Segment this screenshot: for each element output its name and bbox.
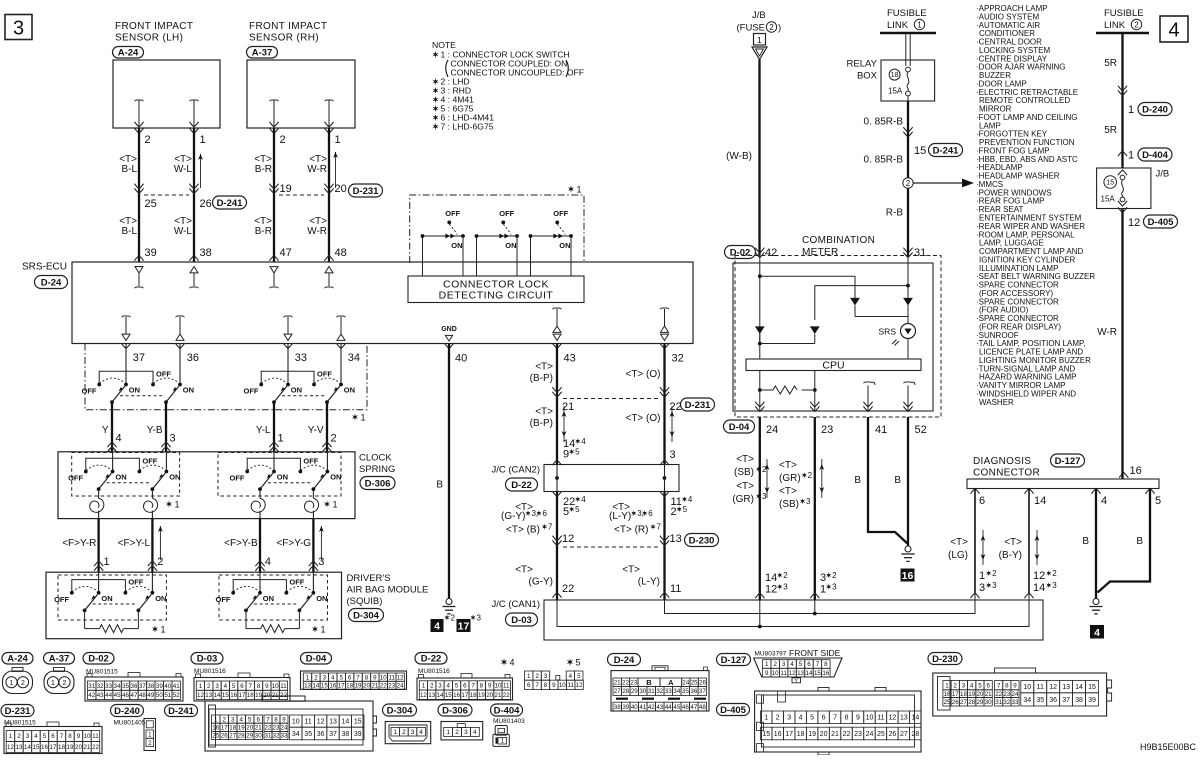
svg-text:B: B	[1082, 536, 1089, 547]
front impact sensor LH box	[113, 60, 220, 128]
svg-text:<T> (O): <T> (O)	[625, 369, 660, 380]
svg-text:22: 22	[92, 744, 99, 751]
svg-text:12: 12	[889, 715, 897, 722]
diode D1	[850, 298, 859, 305]
svg-text:DRIVER'S: DRIVER'S	[347, 573, 391, 584]
squib resistor element	[245, 610, 247, 628]
svg-text:2: 2	[906, 179, 911, 188]
svg-text:<T>: <T>	[1004, 537, 1022, 548]
junction D-230 on wire G-Y	[552, 540, 561, 545]
svg-text:35: 35	[682, 688, 689, 695]
connector D-231 pinout	[1, 705, 34, 717]
svg-text:6: 6	[807, 661, 811, 668]
svg-text:<T> (B): <T> (B)	[506, 525, 540, 536]
svg-text:18: 18	[58, 744, 65, 751]
shorting-bar bracket	[99, 371, 153, 383]
diagnosis pin 16 entry	[1119, 473, 1128, 478]
svg-text:D-02: D-02	[730, 247, 751, 258]
squib resistor element	[84, 610, 86, 628]
svg-text:12: 12	[1128, 217, 1140, 229]
wire Y-G clock spring to squib pin 3	[312, 519, 314, 573]
svg-text:14: 14	[312, 683, 319, 690]
wire Y-L clock spring to squib pin 2	[151, 519, 153, 573]
svg-text:B-L: B-L	[121, 164, 137, 175]
switch blade (left)	[260, 473, 273, 489]
svg-text:3: 3	[231, 716, 235, 723]
connector 39-pin pinout (D-241)	[205, 701, 373, 751]
svg-text:A: A	[668, 678, 674, 687]
diagnosis pin 14 entry	[1024, 489, 1033, 494]
svg-text:1: 1	[979, 570, 985, 582]
wire diagnosis pin 14 (B-Y) to CAN1	[1028, 489, 1030, 594]
svg-text:(B-Y): (B-Y)	[999, 550, 1022, 561]
svg-text:2: 2	[776, 715, 780, 722]
svg-text:12: 12	[789, 670, 796, 677]
switch blade (right)	[327, 386, 340, 402]
svg-text:31: 31	[648, 688, 655, 695]
junction block J/C(CAN1) box	[544, 600, 1043, 640]
svg-text:31: 31	[914, 247, 926, 259]
svg-text:1: 1	[422, 683, 426, 690]
svg-text:FUSIBLE: FUSIBLE	[887, 8, 927, 19]
svg-text:Y: Y	[102, 425, 109, 436]
ground point 16	[901, 569, 915, 582]
svg-text:45: 45	[114, 692, 121, 699]
svg-text:D-231: D-231	[353, 186, 380, 197]
switch OFF contact (left)	[245, 470, 249, 474]
squib shorting switch dashed box 1 (star1)	[58, 575, 166, 620]
svg-text:26: 26	[952, 699, 959, 706]
connector D-22 pinout	[415, 653, 447, 665]
svg-text:17: 17	[338, 683, 345, 690]
svg-text:12: 12	[1049, 684, 1057, 691]
splice node 2	[903, 178, 913, 188]
svg-text:15A: 15A	[888, 87, 903, 96]
svg-text:32: 32	[273, 733, 280, 740]
wire Y-B clock spring to squib pin 4	[259, 519, 261, 573]
diagnosis pin 6 entry	[970, 489, 979, 494]
switch OFF contact (right)	[151, 383, 155, 387]
junction dashed link RH (D-231)	[279, 194, 324, 196]
svg-text:11: 11	[305, 719, 312, 726]
svg-text:14: 14	[24, 744, 31, 751]
svg-text:OFF: OFF	[303, 456, 318, 465]
meter wire CPU to pin 23	[814, 371, 816, 412]
svg-text:OFF: OFF	[289, 578, 304, 587]
svg-text:D-405: D-405	[720, 705, 747, 716]
svg-text:DIAGNOSIS: DIAGNOSIS	[973, 456, 1031, 467]
svg-text:4: 4	[224, 683, 228, 690]
junction D-241 on wire R-B	[903, 132, 912, 137]
svg-text:7: 7	[266, 716, 270, 723]
SRS-ECU CAN pin 32 transceiver	[660, 308, 669, 309]
wire from right switch output	[165, 402, 167, 452]
switch OFF contact (right)	[285, 591, 289, 595]
svg-text:1: 1	[446, 729, 450, 736]
switch blade (right)	[138, 595, 151, 611]
svg-text:27: 27	[900, 731, 908, 738]
svg-text:12: 12	[397, 674, 404, 681]
svg-text:3: 3	[979, 582, 985, 594]
svg-text:3: 3	[438, 683, 442, 690]
svg-text:36: 36	[187, 352, 199, 364]
svg-text:1: 1	[577, 185, 582, 195]
shorting-bar bracket	[233, 580, 286, 592]
svg-text:51: 51	[164, 692, 171, 699]
svg-text:CPU: CPU	[822, 359, 844, 371]
svg-text:38: 38	[1075, 697, 1083, 704]
component DRIVER'S AIR BAG MODULE (SQUIB) box	[46, 572, 342, 639]
svg-text:1: 1	[501, 738, 505, 745]
svg-text:8: 8	[1005, 682, 1009, 689]
svg-text:18: 18	[229, 725, 236, 732]
svg-text:W-R: W-R	[307, 226, 327, 237]
svg-text:13: 13	[16, 744, 23, 751]
junction D-405 below J/B	[1118, 201, 1127, 206]
svg-text:32: 32	[97, 683, 104, 690]
svg-text:Y-L: Y-L	[256, 425, 271, 436]
meter current source pin 52	[904, 382, 913, 383]
wire from left switch output	[111, 402, 113, 452]
OFF dashed arc (right)	[286, 586, 311, 591]
clock spring input pin 4 wire	[112, 452, 114, 472]
svg-text:20: 20	[246, 725, 253, 732]
svg-text:21: 21	[371, 683, 378, 690]
svg-text:29: 29	[976, 699, 983, 706]
connector D-404 pinout	[491, 704, 523, 716]
svg-text:3: 3	[762, 492, 767, 501]
svg-text:<T>: <T>	[950, 537, 968, 548]
svg-text:B-R: B-R	[255, 164, 272, 175]
OFF dashed arc (right)	[153, 378, 178, 383]
switch OFF contact (right)	[124, 591, 128, 595]
svg-text:1: 1	[200, 134, 206, 146]
svg-text:5: 5	[563, 506, 569, 518]
svg-text:1: 1	[335, 134, 341, 146]
svg-text:CONNECTOR UNCOUPLED: OFF: CONNECTOR UNCOUPLED: OFF	[451, 68, 585, 78]
connector D-03 pinout	[191, 653, 223, 665]
svg-text:15: 15	[914, 145, 926, 157]
svg-text:2: 2	[808, 471, 813, 480]
svg-text:ON: ON	[183, 386, 194, 395]
svg-text:28: 28	[238, 733, 245, 740]
direction arrow wire 23	[821, 459, 823, 498]
svg-text:B: B	[894, 475, 901, 486]
svg-text:3,: 3,	[637, 509, 644, 518]
connector A-24 pinout	[2, 653, 33, 665]
harness direction arrow (LH)	[200, 154, 202, 188]
svg-text:47: 47	[690, 704, 697, 711]
svg-text:40: 40	[455, 353, 467, 365]
svg-text:4: 4	[569, 673, 573, 680]
shorting-bar bracket	[72, 580, 126, 592]
svg-text:2: 2	[207, 683, 211, 690]
fusible link double wire	[905, 33, 907, 66]
svg-text:D-04: D-04	[306, 654, 327, 665]
svg-text:25: 25	[145, 198, 157, 210]
svg-text:<T>: <T>	[736, 481, 754, 492]
svg-text:14: 14	[214, 692, 221, 699]
svg-text:24: 24	[281, 725, 288, 732]
svg-text:7: 7	[471, 683, 475, 690]
switch OFF contact (right)	[299, 470, 303, 474]
svg-text:11: 11	[877, 715, 884, 722]
svg-text:D-04: D-04	[729, 422, 750, 433]
svg-text:44: 44	[105, 692, 112, 699]
svg-text:47: 47	[131, 692, 138, 699]
svg-text:4: 4	[688, 495, 693, 504]
svg-text:27: 27	[960, 699, 967, 706]
svg-text:39: 39	[145, 247, 157, 259]
svg-text:ON: ON	[101, 594, 112, 603]
squib input pin 4 wire	[259, 572, 261, 593]
meter internal link diodes	[760, 343, 815, 345]
switch gang link (dashed)	[282, 395, 326, 397]
svg-text:9: 9	[488, 683, 492, 690]
svg-text:23: 23	[630, 680, 637, 687]
svg-text:44: 44	[665, 704, 672, 711]
wire switch ON contact to detecting circuit	[462, 236, 464, 276]
svg-text:7: 7	[656, 523, 661, 532]
svg-text:0. 85R-B: 0. 85R-B	[864, 117, 904, 128]
svg-text:SRS-ECU: SRS-ECU	[22, 262, 67, 273]
svg-text:41: 41	[639, 704, 646, 711]
svg-text:20: 20	[335, 183, 347, 195]
svg-text:(SB): (SB)	[779, 499, 799, 510]
svg-text:CLOCK: CLOCK	[359, 453, 392, 464]
svg-text:21: 21	[614, 680, 621, 687]
svg-text:9: 9	[282, 716, 286, 723]
SRS-ECU pin 48 entry	[324, 256, 333, 261]
switch ON contact (right)	[165, 470, 169, 474]
wire CAN pin 32 (O)	[660, 343, 669, 348]
svg-text:12: 12	[317, 719, 325, 726]
switch OFF contact (left)	[84, 470, 88, 474]
svg-text:40: 40	[164, 683, 171, 690]
junction D-231 on CAN 43	[552, 392, 561, 397]
CAN2 node A	[555, 476, 559, 480]
svg-text:1: 1	[104, 556, 110, 568]
connector lock switch assembly (star1 dash-dot box)	[410, 195, 584, 263]
svg-text:1: 1	[757, 35, 762, 45]
svg-text:49: 49	[147, 692, 154, 699]
svg-text:9: 9	[765, 670, 769, 677]
SRS-ECU pin 34 receiver	[337, 316, 346, 317]
svg-text:(GR): (GR)	[732, 494, 754, 505]
OFF dashed arc (left)	[72, 586, 96, 591]
svg-text:18: 18	[346, 683, 353, 690]
wire diagnosis pin 6 (LG) to CAN1	[974, 489, 976, 594]
svg-text:15: 15	[354, 719, 362, 726]
svg-text:D-02: D-02	[88, 654, 109, 665]
svg-text:A-24: A-24	[7, 654, 28, 665]
svg-text:6: 6	[648, 509, 653, 518]
svg-text:11: 11	[670, 583, 681, 595]
svg-text:3: 3	[962, 682, 966, 689]
svg-text:1: 1	[765, 661, 769, 668]
svg-text:8: 8	[480, 683, 484, 690]
svg-text:7: 7	[60, 733, 64, 740]
svg-text:15: 15	[33, 744, 40, 751]
svg-text:3: 3	[806, 497, 811, 506]
svg-text:33: 33	[1012, 699, 1019, 706]
switch OFF contact (right)	[312, 383, 316, 387]
svg-text:38: 38	[614, 704, 621, 711]
ground symbol (diagnosis)	[1093, 599, 1099, 605]
svg-text:2: 2	[832, 571, 837, 580]
svg-text:12: 12	[420, 692, 427, 699]
svg-text:2: 2	[992, 569, 997, 578]
SRS-ECU pin 34 wire	[336, 343, 345, 348]
svg-text:ON: ON	[115, 473, 126, 482]
svg-text:3: 3	[992, 581, 997, 590]
wire meter pin 52 (B) to ground	[907, 417, 909, 546]
svg-text:10: 10	[380, 674, 387, 681]
svg-text:29: 29	[631, 688, 638, 695]
junction D-231 on wire B-R	[269, 188, 278, 193]
svg-text:H9B15E00BC: H9B15E00BC	[1140, 742, 1197, 752]
svg-text:<T>: <T>	[779, 460, 797, 471]
svg-text:10: 10	[84, 733, 91, 740]
svg-text:J/C (CAN2): J/C (CAN2)	[491, 465, 540, 476]
svg-text:5: 5	[1155, 495, 1161, 507]
harness direction arrow (squib left)	[159, 526, 161, 560]
meter exit pin 24	[755, 406, 764, 411]
svg-text:16: 16	[230, 692, 237, 699]
svg-text:18: 18	[891, 72, 899, 79]
svg-text:2: 2	[280, 134, 286, 146]
svg-text:MU801516: MU801516	[418, 668, 450, 675]
sensor RH internal lead pin 1	[325, 100, 334, 101]
svg-text:20: 20	[75, 744, 82, 751]
svg-text:NOTE: NOTE	[432, 40, 456, 50]
svg-text:COMBINATION: COMBINATION	[802, 235, 875, 246]
svg-text:3,: 3,	[531, 509, 538, 518]
meter internal wire from pin 42	[759, 256, 761, 264]
svg-text:D-240: D-240	[114, 706, 140, 717]
svg-text:(G-Y): (G-Y)	[529, 577, 553, 588]
wire meter pin 23 to CAN1 (GR/SB)	[814, 417, 816, 600]
svg-text:B: B	[854, 475, 861, 486]
svg-text:38: 38	[147, 683, 154, 690]
svg-text:D-405: D-405	[1148, 217, 1175, 228]
svg-text:17: 17	[458, 621, 470, 633]
CAN junction dashed link (D-230)	[563, 546, 658, 548]
connector D-02 pinout	[83, 653, 114, 665]
direction arrow CAN 32	[671, 406, 673, 442]
wire CAN pin 43 (B-P)	[552, 343, 561, 348]
svg-text:5: 5	[575, 448, 580, 457]
svg-text:7: 7	[249, 683, 253, 690]
switch blade (left)	[99, 473, 112, 489]
wire diagnosis pin 5 (B) to ground	[1098, 489, 1151, 593]
svg-text:D-231: D-231	[5, 706, 32, 717]
ground point 4 (diagnosis)	[1090, 625, 1104, 639]
SRS-ECU pin 36 wire	[175, 343, 184, 348]
svg-text:28: 28	[968, 699, 975, 706]
svg-text:1: 1	[945, 682, 949, 689]
svg-text:52: 52	[173, 692, 180, 699]
svg-text:13: 13	[670, 533, 682, 545]
svg-text:D-306: D-306	[365, 478, 391, 489]
connector lock switch	[531, 235, 572, 237]
svg-text:5: 5	[810, 715, 814, 722]
svg-text:12: 12	[576, 682, 583, 689]
svg-text:15: 15	[1088, 684, 1096, 691]
svg-text:15: 15	[762, 731, 770, 738]
wire switch common to detecting circuit	[530, 236, 532, 276]
svg-text:13: 13	[329, 719, 337, 726]
svg-text:(GR): (GR)	[779, 473, 801, 484]
CAN2 node B	[663, 476, 667, 480]
connector D-127 pinout	[717, 654, 751, 666]
svg-text:15A: 15A	[1101, 195, 1116, 204]
svg-text:7: 7	[356, 674, 360, 681]
svg-text:(FUSE: (FUSE	[737, 23, 766, 34]
wire switch ON contact to detecting circuit	[516, 236, 518, 276]
svg-text:8: 8	[845, 715, 849, 722]
meter internal wire from pin 31	[907, 256, 909, 264]
harness direction arrow (RH)	[335, 152, 337, 188]
svg-text:SRS: SRS	[879, 327, 897, 337]
svg-text:6: 6	[542, 509, 547, 518]
combination meter inner box	[733, 263, 933, 411]
CAN1 node wire23	[813, 612, 817, 616]
svg-text:<F>Y-R: <F>Y-R	[62, 538, 96, 549]
squib input pin 1 wire	[98, 572, 100, 593]
svg-text:17: 17	[221, 725, 228, 732]
svg-text:4: 4	[240, 716, 244, 723]
svg-text:11: 11	[92, 733, 99, 740]
svg-text:3: 3	[544, 673, 548, 680]
OFF dashed arc (left)	[247, 465, 271, 470]
svg-text:ON: ON	[155, 594, 166, 603]
svg-text:D-304: D-304	[353, 610, 380, 621]
svg-text:WASHER: WASHER	[979, 398, 1014, 407]
svg-text:MU801403: MU801403	[493, 718, 525, 725]
connector D-231 label (CAN)	[681, 398, 715, 411]
svg-text:39: 39	[1088, 697, 1096, 704]
svg-text:14: 14	[765, 572, 777, 584]
connector D-405 pinout	[717, 704, 750, 716]
svg-text:24: 24	[766, 424, 778, 436]
svg-text:B: B	[436, 480, 443, 491]
svg-text:OFF: OFF	[54, 595, 69, 604]
clock spring input pin 3 wire	[165, 452, 167, 472]
svg-text:43: 43	[656, 704, 663, 711]
svg-text:38: 38	[200, 247, 212, 259]
svg-text:20: 20	[363, 683, 370, 690]
svg-text:1: 1	[764, 715, 768, 722]
svg-text:36: 36	[1049, 697, 1057, 704]
ground symbol (meter)	[905, 546, 911, 552]
svg-text:52: 52	[915, 424, 927, 436]
svg-text:24: 24	[682, 680, 689, 687]
SRS-ECU pin 33 wire	[283, 343, 292, 348]
svg-text:7: 7	[816, 661, 820, 668]
svg-text:11: 11	[1037, 684, 1044, 691]
svg-text:14: 14	[342, 719, 350, 726]
CAN junction dashed link (D-231)	[563, 398, 658, 400]
wire W-L sensor LH pin1 to SRS-ECU pin38	[189, 122, 198, 127]
svg-text:7: 7	[548, 523, 553, 532]
connector D-03 label	[506, 613, 538, 626]
svg-text:1: 1	[361, 413, 366, 423]
svg-text:34: 34	[673, 688, 680, 695]
svg-text:33: 33	[281, 733, 288, 740]
squib shorting switch dashed box 2 (star1)	[219, 575, 328, 620]
OFF dashed arc (left)	[99, 378, 123, 383]
